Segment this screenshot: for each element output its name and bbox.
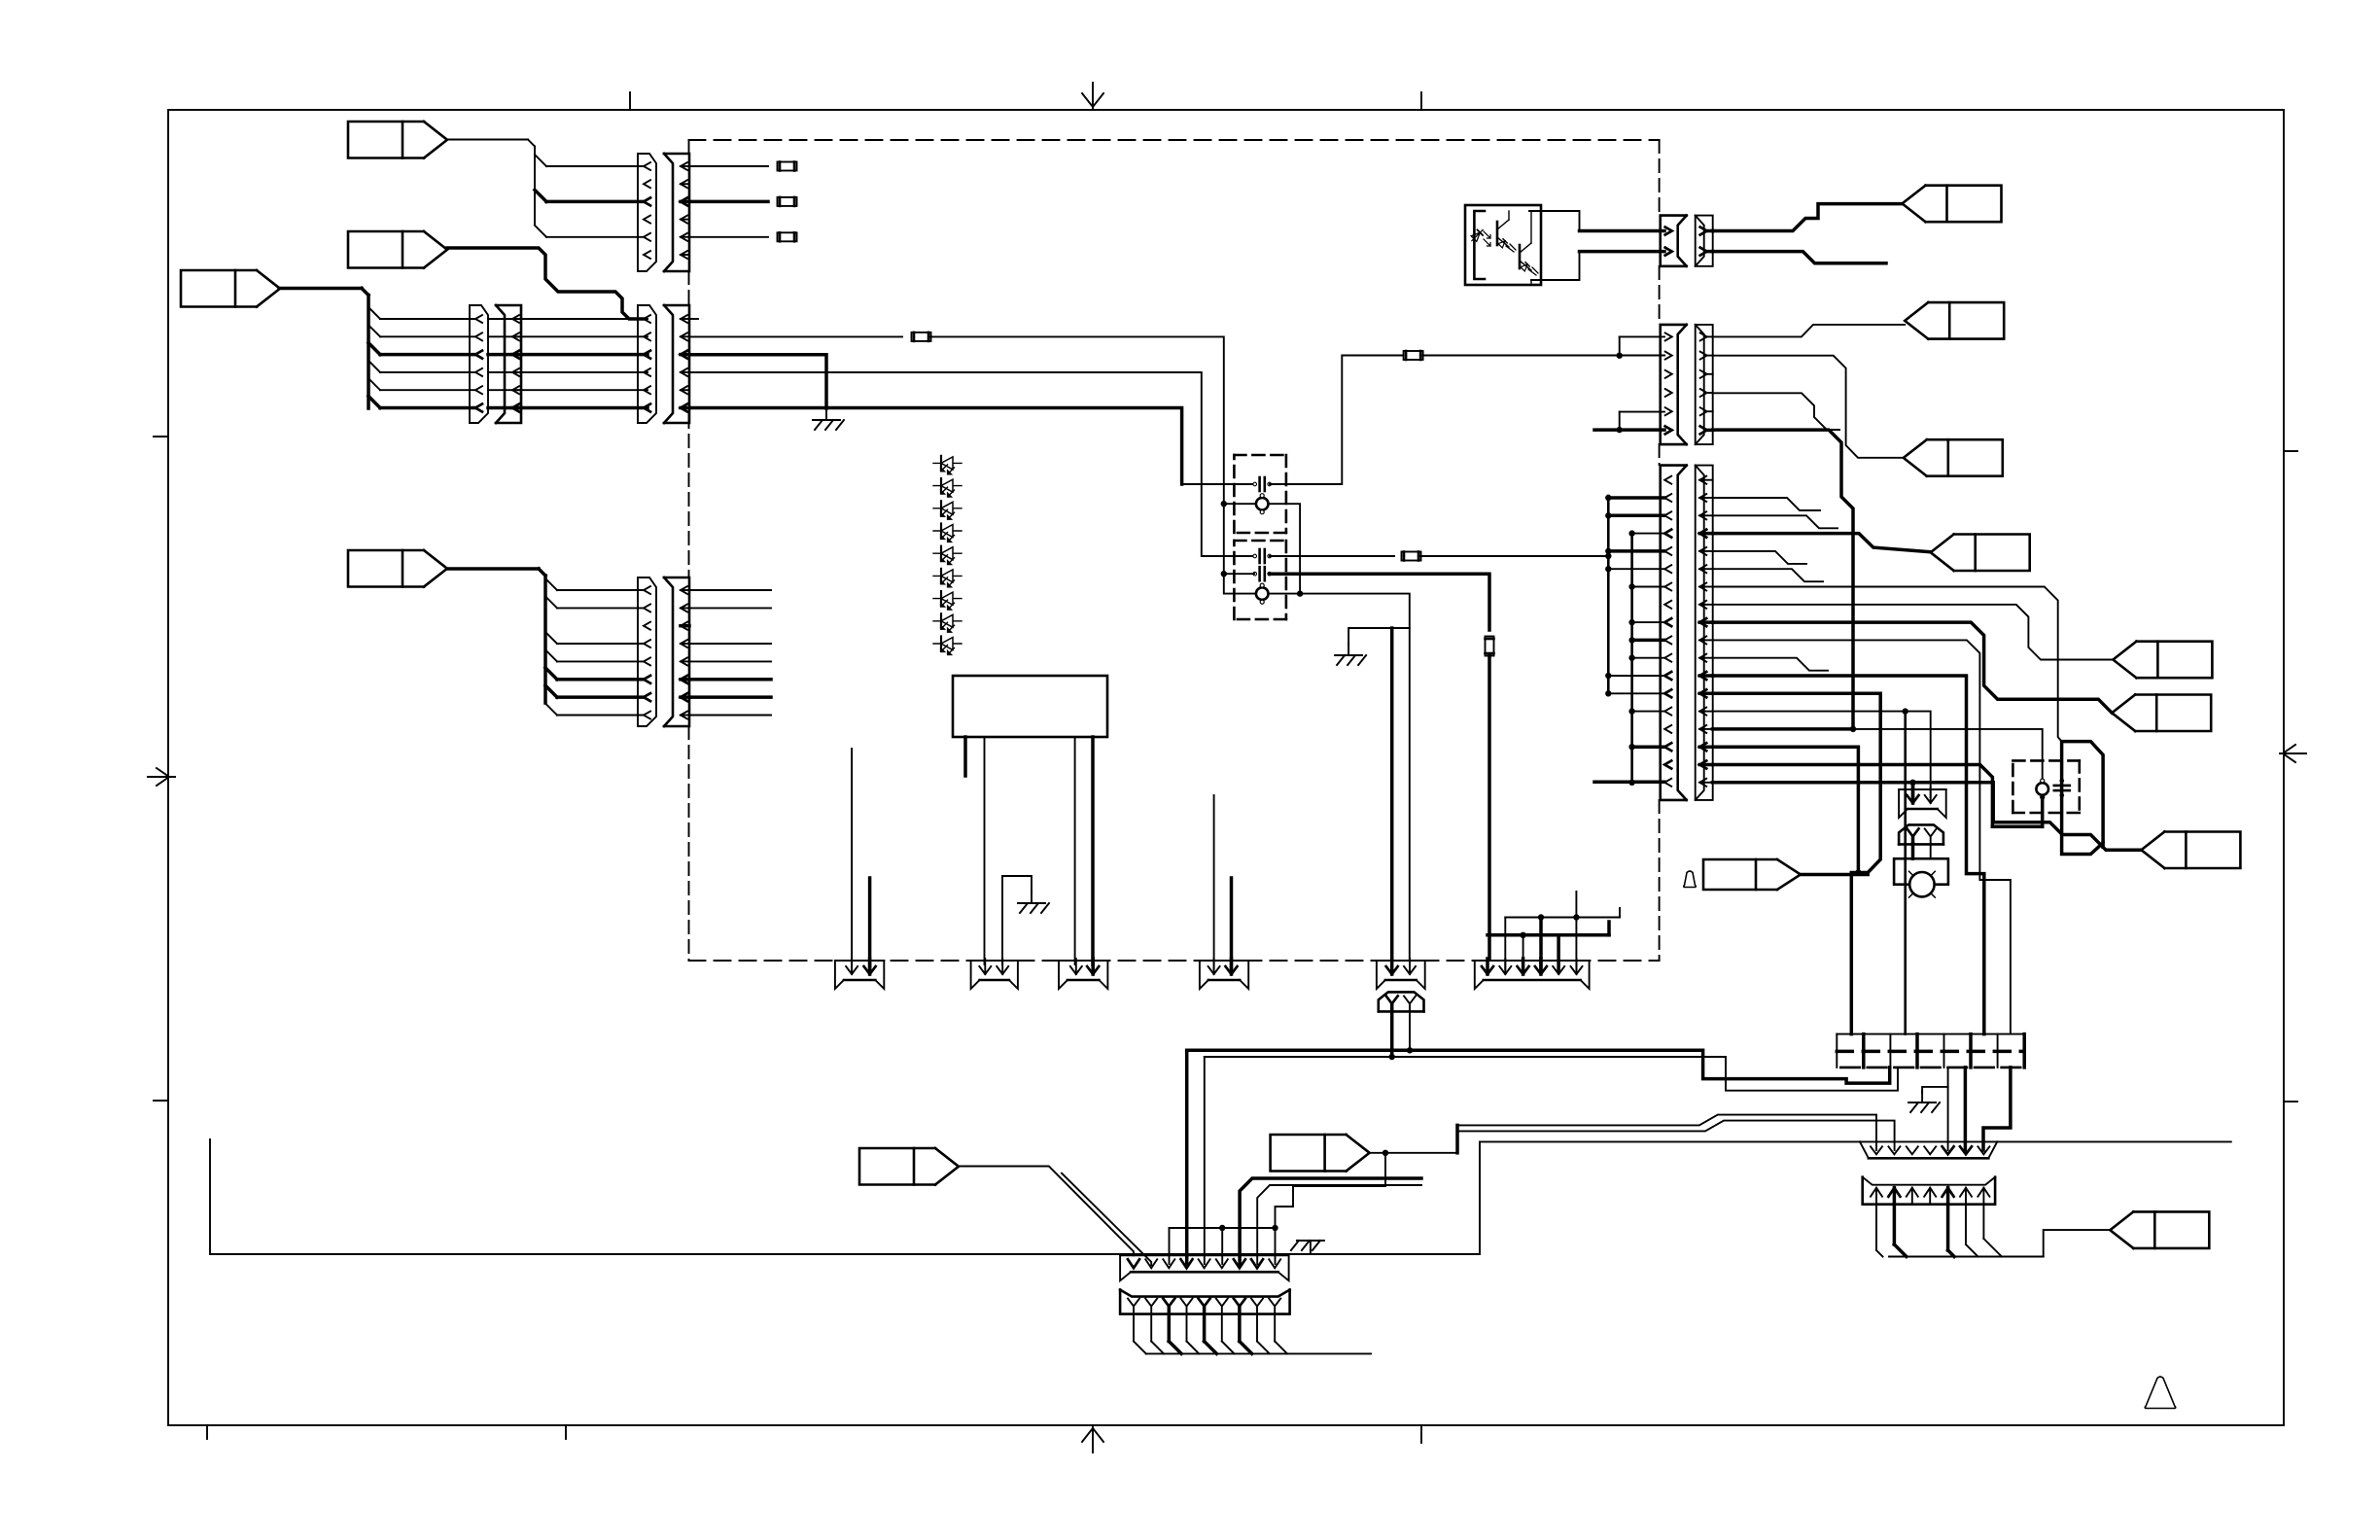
triangle mark T1 xyxy=(1684,871,1697,888)
wire pin5 vert lower xyxy=(1204,1057,1206,1264)
wire PJ pin18 feed xyxy=(1594,781,1664,785)
wire F6 v2 xyxy=(1522,935,1524,969)
capacitor C2 xyxy=(1253,549,1272,563)
wire P_R2 pin4 right xyxy=(1712,393,1839,430)
ground G5 xyxy=(1291,1241,1324,1250)
wire PJ pin3 right xyxy=(1712,515,1837,528)
connector lamp mate xyxy=(1899,824,1943,844)
connector C_BC2 xyxy=(1120,1290,1290,1314)
wire jog bold xyxy=(1187,1050,1890,1083)
wire PJ pin11 right xyxy=(1712,658,1828,671)
LED D6 xyxy=(933,569,962,587)
wire PJ pin8 to RM1 xyxy=(1712,605,2113,660)
connector OC xyxy=(2062,742,2104,855)
wire P_R2 pin2 to R3 xyxy=(1712,356,1903,458)
wire netB to BR1 xyxy=(1457,1121,1895,1150)
wire W216 ground stem xyxy=(1310,1242,1312,1254)
wire PJ pin2 right xyxy=(1712,498,1820,510)
wire Rdelta to net xyxy=(1800,873,1868,877)
wire PJ pin18 lamp feed xyxy=(1712,783,2141,850)
border tick bottom-right xyxy=(1420,1425,1422,1443)
LED D9 xyxy=(933,637,962,655)
LED D1 xyxy=(933,456,962,474)
wire motor2 right to ground xyxy=(1270,594,1410,646)
wire P1 pin to jumper xyxy=(689,165,768,167)
wire flag L2 route xyxy=(447,248,644,319)
off-page flag L4 xyxy=(348,550,447,587)
sensor dashed box S1a xyxy=(1234,455,1286,533)
capacitor C4 xyxy=(2054,779,2070,797)
wire cap1 chain cont xyxy=(1422,355,1620,357)
wire BL1 diag b xyxy=(1062,1173,1151,1265)
ground G1 xyxy=(813,408,844,430)
jumper R3 xyxy=(778,232,797,241)
wire P_opt pin2 right xyxy=(1712,252,1886,263)
wire PJ pin7 to OC xyxy=(1712,587,2061,742)
border tick right-lower xyxy=(2284,1101,2297,1102)
wire P3 pin1 right xyxy=(689,589,771,591)
wire strip gnd xyxy=(1922,1067,1948,1150)
connector C_BC1 xyxy=(1120,1255,1289,1280)
jumper R6b xyxy=(1404,351,1423,360)
wire PJ pin6 right xyxy=(1712,569,1823,581)
off-page flag Rdelta xyxy=(1703,859,1801,890)
wire motor1 links xyxy=(1221,501,1304,597)
wire PA-PB pin1 xyxy=(488,318,647,320)
wire P3 pin8 right xyxy=(689,715,771,717)
wire bus1263 up link xyxy=(1276,1150,1389,1228)
wire PB pin1 stub xyxy=(689,318,698,320)
wire PB pin3 to ground G1 xyxy=(689,355,826,408)
off-page flag L2 xyxy=(348,231,447,268)
capacitor C1 xyxy=(1253,477,1272,491)
wire W216 xyxy=(210,1139,2231,1254)
off-page flag R7 xyxy=(2110,1211,2209,1248)
motor M2 xyxy=(1256,583,1269,604)
wire F5 mate a xyxy=(1389,1010,1395,1060)
wire motor3 return xyxy=(1992,825,2042,829)
IC leg 3 xyxy=(1074,737,1076,964)
jumper R2 xyxy=(778,197,797,206)
wire P_R2 pin1 feed xyxy=(1617,336,1665,359)
wire BR2 bundle to R7 xyxy=(1876,1205,2110,1257)
motor M3 xyxy=(2036,779,2048,799)
wire P_R2 pin6 feed xyxy=(1594,428,1664,432)
wire P_R2 pin5 feed xyxy=(1617,412,1665,434)
wire BC2 tip xyxy=(1370,1152,1457,1154)
off-page flag R2 xyxy=(1905,302,2004,339)
IC leg 2 xyxy=(984,737,986,964)
wire PB pin6 to cap1 xyxy=(689,408,1254,485)
wire BC1 pin7 up xyxy=(1240,1178,1421,1264)
IC leg stub xyxy=(963,737,967,776)
off-page flag R5 xyxy=(1931,535,2030,572)
off-page flag RM1 xyxy=(2113,642,2212,679)
wire PA-PB pin6 xyxy=(488,406,647,410)
jumper R1 xyxy=(778,162,797,171)
wire PB pin4 to cap2 xyxy=(689,372,1254,556)
ground G4 xyxy=(1908,1091,1940,1112)
wire F1 feed a xyxy=(851,749,853,969)
wire PJ pin16 down xyxy=(1712,747,1861,876)
wire P3 pin6 right xyxy=(689,678,771,682)
wire P1 pin to jumper xyxy=(689,236,768,238)
wire fuse down to F6 xyxy=(1487,655,1491,959)
border tick right-upper xyxy=(2284,450,2297,452)
pcb dashed box bottom edge xyxy=(689,960,1660,962)
ground G2 xyxy=(1335,644,1366,665)
wire P_R2 pin6 right xyxy=(1712,430,1853,727)
wire PA-PB pin3 xyxy=(488,353,647,357)
lamp block xyxy=(1894,858,1948,885)
fork F2 xyxy=(971,959,1018,989)
wire strip to BR1 p6 xyxy=(1964,1067,1968,1150)
wire PJ bus2 xyxy=(1628,530,1664,786)
wire F4 feed a xyxy=(1213,795,1215,969)
connector pair PA xyxy=(470,305,521,423)
fork F_lamp xyxy=(1899,787,1946,818)
wire F6 v4 xyxy=(1557,935,1560,969)
jumper R5c xyxy=(1402,552,1421,561)
wire PJ pin13 to strip1 xyxy=(1712,693,1880,1033)
wire cap2 right xyxy=(1270,555,1394,557)
off-page flag BC2 xyxy=(1271,1135,1370,1172)
wire F6 bus thin xyxy=(1505,914,1620,920)
wire PJ pin10 to strip7 xyxy=(1712,640,2010,1033)
wire flag L1 bundle xyxy=(447,140,644,237)
wire PA-PB pin2 xyxy=(488,335,647,337)
off-page flag R3 xyxy=(1904,439,2003,476)
border tick top-right xyxy=(1420,92,1422,110)
wire IC ground branch xyxy=(1002,876,1032,964)
capacitor C3 xyxy=(1253,567,1272,580)
wire F6 bus bold xyxy=(1487,932,1609,938)
wire P1 pin to jumper xyxy=(689,200,768,204)
wire OC bottom out xyxy=(2101,843,2105,847)
fork F3 xyxy=(1059,959,1107,989)
border tick bottom-mid xyxy=(565,1425,567,1439)
wire P3 pin3 stub xyxy=(681,624,689,628)
wire F5 mate b xyxy=(1407,1010,1413,1053)
border tick top-left xyxy=(629,92,631,110)
jumper R4 xyxy=(912,332,931,341)
LED D5 xyxy=(933,546,962,565)
fork F1 xyxy=(835,959,884,989)
wire F4 feed b xyxy=(1230,878,1234,969)
wire F5 feed bold xyxy=(1390,628,1394,959)
IC block U1 xyxy=(953,676,1107,737)
pcb dashed box left edge xyxy=(688,140,690,961)
optocoupler U2 xyxy=(1465,205,1541,285)
connector pair P_opt xyxy=(1661,216,1713,266)
wire BL1 diag a xyxy=(958,1167,1134,1256)
wire PJ pin14 to lamp and strip3 xyxy=(1712,708,1930,1033)
pcb dashed box top edge xyxy=(689,139,1660,141)
connector pair P1 xyxy=(638,154,689,271)
border tick bottom-left xyxy=(206,1425,208,1439)
wire PB pin2 cont xyxy=(930,336,1255,593)
wire PA-PB pin4 xyxy=(488,371,647,373)
off-page flag R6 xyxy=(2141,832,2240,869)
wire F6 v3 xyxy=(1539,918,1543,970)
border arrow left xyxy=(148,768,175,786)
border frame xyxy=(168,110,2284,1425)
connector pair PB xyxy=(638,305,689,423)
wire F5 feed thin xyxy=(1409,628,1411,959)
wire BC2 up branch xyxy=(1455,1125,1459,1152)
fork F5 xyxy=(1377,959,1425,989)
off-page flag R1 xyxy=(1903,186,2002,223)
wire opto out A xyxy=(1529,211,1664,231)
wire PJ bus1 xyxy=(1605,495,1664,697)
wire PJ pin12 to strip6 xyxy=(1712,676,1983,1034)
wire PJ pin17 motor ret xyxy=(1712,765,1992,827)
wire cap3 bold right xyxy=(1270,574,1489,630)
LED D4 xyxy=(933,524,962,542)
wire P_R2 pin2 feed xyxy=(1620,355,1665,357)
wire P_opt pin1 to R1 xyxy=(1712,204,1902,231)
border arrow top xyxy=(1082,83,1103,110)
fork F4 xyxy=(1200,959,1248,989)
IC leg 4 xyxy=(1091,737,1095,964)
wire PB pin2 to sensor xyxy=(689,335,902,337)
connector C_BR1 xyxy=(1860,1141,1997,1158)
wire pin4 vert lower xyxy=(1185,1050,1189,1264)
wire flag L3 bundle xyxy=(279,289,475,409)
connector pair PJ xyxy=(1661,466,1713,800)
LED D8 xyxy=(933,613,962,632)
wire P3 pin2 right xyxy=(689,607,771,609)
wire P3 pin5 right xyxy=(689,660,771,662)
LED D3 xyxy=(933,501,962,519)
wire PA-PB pin5 xyxy=(488,389,647,391)
lamp LP1 xyxy=(1909,871,1936,897)
connector pair P3 xyxy=(638,577,689,726)
wire strip to BR1 p7 xyxy=(1983,1067,2011,1150)
off-page flag RM2 xyxy=(2112,695,2211,732)
wire BC2 bundle xyxy=(1134,1308,1371,1353)
wire motor3 vert xyxy=(2041,797,2045,826)
off-page flag L1 xyxy=(348,122,447,158)
wire F6 v1 xyxy=(1504,918,1506,970)
wire opto out B xyxy=(1531,252,1664,280)
off-page flag BL1 xyxy=(859,1148,959,1185)
wire F6 v5 xyxy=(1575,892,1577,969)
terminal strip TB1 xyxy=(1837,1034,2024,1067)
motor M1 xyxy=(1256,494,1269,514)
wire cap4 stubs xyxy=(2061,742,2063,827)
border tick left-lower xyxy=(154,1100,168,1102)
wire cap3 left xyxy=(1221,571,1254,577)
wire P_R2 pin1 to R2 xyxy=(1712,325,1905,337)
wire netA to BR1 xyxy=(1457,1115,1876,1150)
wire jog thin xyxy=(1205,1057,1898,1091)
fuse F1 xyxy=(1486,637,1494,656)
wire cap2 to busJ xyxy=(1419,553,1612,559)
pcb dashed box right edge xyxy=(1659,140,1661,961)
wire PJ pin9 to RM2 xyxy=(1712,622,2112,713)
wire F1 feed b xyxy=(868,878,872,969)
connector F5 mate xyxy=(1379,992,1424,1011)
border tick left-upper xyxy=(154,436,168,437)
connector pair P_R2 xyxy=(1661,325,1713,444)
sensor dashed box S1b xyxy=(1234,541,1286,619)
wire lamp mate wires xyxy=(1913,844,1931,859)
triangle mark T2 xyxy=(2145,1377,2176,1409)
wire F6 bus ends xyxy=(1609,908,1620,935)
wire flag L4 bundle xyxy=(447,569,644,716)
wire PJ pin5 right xyxy=(1712,551,1806,564)
wire lamp feed T xyxy=(1909,780,1915,797)
wire cap1 right chain xyxy=(1270,356,1404,485)
border arrow right xyxy=(2280,745,2306,762)
wire BC1 pin8 up xyxy=(1257,1185,1421,1264)
wire P3 pin7 right xyxy=(689,695,771,699)
sensor dashed box S2 xyxy=(2012,760,2079,813)
wire PJ pin15 to motor3 xyxy=(1712,726,2042,781)
wire P3 pin4 right xyxy=(689,643,771,645)
LED D7 xyxy=(933,591,962,610)
off-page flag L3 xyxy=(181,270,280,307)
wire PJ pin4 to R5 xyxy=(1712,534,1930,552)
fork F6 xyxy=(1475,959,1590,989)
wire bus1263 drops xyxy=(1170,1228,1276,1264)
connector C_BR2 xyxy=(1863,1177,1995,1205)
border arrow bottom xyxy=(1082,1425,1103,1452)
wire bus1263 xyxy=(1170,1225,1278,1231)
LED D2 xyxy=(933,478,962,497)
ground G3 xyxy=(1018,892,1049,913)
